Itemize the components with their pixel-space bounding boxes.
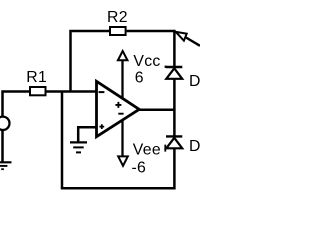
source V1 (half circle at left edge) — [0, 117, 9, 130]
ground under op-amp — [70, 141, 87, 143]
op-amp output plus mark — [115, 102, 121, 108]
diode D2 triangle — [166, 138, 182, 149]
wire inverting node up to R2 — [71, 31, 110, 92]
diode D2 cathode bar — [166, 135, 182, 137]
wire source top to R1 — [3, 92, 30, 118]
diode D1 triangle — [166, 68, 182, 79]
wire R2 right to top-right node — [127, 30, 175, 33]
op-amp inverting input minus mark — [99, 91, 105, 93]
Vee arrowhead — [118, 156, 128, 165]
Vcc supply line — [121, 60, 123, 98]
ground under source — [0, 161, 12, 163]
op-amp output minus mark — [118, 113, 123, 115]
svg-text:R2: R2 — [107, 9, 128, 26]
cropped glyph fragment right of Vee — [164, 145, 166, 152]
op-amp non-inverting input plus mark — [99, 124, 104, 129]
wire op-amp output — [139, 109, 175, 112]
resistor R1 — [30, 87, 46, 95]
wire right riser to D2 anode — [173, 148, 176, 190]
svg-text:-6: -6 — [132, 159, 147, 176]
op-amp U1 triangle — [97, 81, 140, 136]
wire source bottom to ground — [1, 130, 4, 162]
cropped glyph fragment right of Vcc — [165, 66, 167, 68]
wire non-inverting input to ground — [78, 127, 96, 141]
Vee supply line — [121, 120, 123, 157]
svg-text:D1: D1 — [189, 73, 200, 90]
svg-text:Vcc: Vcc — [133, 53, 160, 70]
diode D1 cathode bar — [166, 66, 182, 68]
svg-text:R1: R1 — [26, 69, 47, 86]
wire R1 to op-amp inverting input — [47, 90, 96, 93]
resistor R2 — [110, 27, 126, 35]
wiper arrowhead — [176, 32, 187, 41]
wire D1 anode to output node and down to D2 cathode — [173, 79, 176, 136]
wire inverting node down to bottom rail — [61, 91, 64, 189]
wire top-right node down to D1 cathode — [173, 30, 176, 66]
Vcc arrowhead — [118, 51, 128, 60]
svg-text:6: 6 — [135, 69, 144, 86]
svg-text:D2: D2 — [189, 138, 200, 155]
svg-text:Vee: Vee — [133, 142, 161, 159]
wiper arrow line into top-right node — [185, 37, 200, 46]
wire bottom rail — [61, 187, 175, 190]
